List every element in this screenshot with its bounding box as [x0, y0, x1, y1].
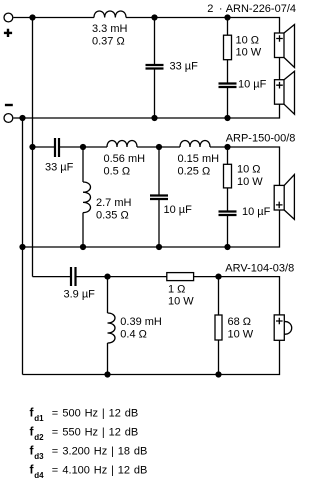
svg-text:=3.200 Hz | 18 dB: =3.200 Hz | 18 dB	[52, 446, 148, 458]
svg-text:0.37 Ω: 0.37 Ω	[92, 35, 125, 47]
svg-text:10 µF: 10 µF	[238, 79, 267, 91]
svg-text:10 Ω: 10 Ω	[236, 35, 260, 47]
svg-text:10 µF: 10 µF	[164, 204, 193, 216]
svg-text:2.7 mH: 2.7 mH	[96, 197, 132, 209]
svg-text:ARP-150-00/8: ARP-150-00/8	[226, 133, 296, 145]
svg-text:=500 Hz | 12 dB: =500 Hz | 12 dB	[52, 408, 138, 420]
svg-text:10 W: 10 W	[236, 47, 262, 59]
svg-text:ARV-104-03/8: ARV-104-03/8	[225, 263, 294, 275]
svg-text:=4.100 Hz | 12 dB: =4.100 Hz | 12 dB	[52, 465, 148, 477]
svg-text:33 µF: 33 µF	[170, 61, 199, 73]
svg-text:3.3 mH: 3.3 mH	[92, 23, 128, 35]
svg-text:10 W: 10 W	[168, 296, 194, 308]
svg-text:=550 Hz | 12 dB: =550 Hz | 12 dB	[52, 427, 138, 439]
svg-text:2·ARN-226-07/4: 2·ARN-226-07/4	[207, 3, 296, 15]
svg-text:0.25 Ω: 0.25 Ω	[178, 165, 211, 177]
svg-text:0.56 mH: 0.56 mH	[104, 153, 146, 165]
svg-text:0.5 Ω: 0.5 Ω	[104, 165, 131, 177]
svg-text:0.4 Ω: 0.4 Ω	[120, 329, 147, 341]
svg-text:33 µF: 33 µF	[45, 162, 74, 174]
svg-text:0.39 mH: 0.39 mH	[120, 316, 162, 328]
svg-text:10 Ω: 10 Ω	[237, 164, 261, 176]
svg-text:10 W: 10 W	[237, 176, 263, 188]
svg-text:68 Ω: 68 Ω	[228, 316, 252, 328]
svg-text:3.9 µF: 3.9 µF	[64, 289, 96, 301]
svg-text:0.15 mH: 0.15 mH	[178, 153, 220, 165]
svg-text:10 µF: 10 µF	[242, 206, 271, 218]
svg-text:10 W: 10 W	[228, 329, 254, 341]
svg-text:1 Ω: 1 Ω	[168, 284, 185, 296]
svg-text:0.35 Ω: 0.35 Ω	[96, 210, 129, 222]
